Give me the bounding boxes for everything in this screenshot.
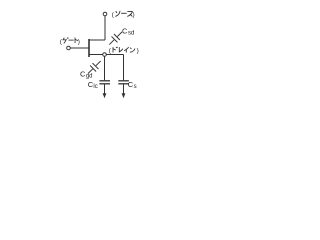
svg-text:): ): [78, 38, 80, 45]
svg-text:Cs: Cs: [128, 80, 137, 90]
svg-text:(: (: [112, 11, 115, 18]
svg-text:(: (: [60, 38, 63, 45]
svg-text:Csd: Csd: [122, 27, 134, 37]
svg-text:): ): [137, 48, 139, 55]
svg-text:Clc: Clc: [88, 80, 98, 90]
svg-text:(: (: [109, 48, 112, 55]
svg-text:): ): [133, 11, 135, 18]
